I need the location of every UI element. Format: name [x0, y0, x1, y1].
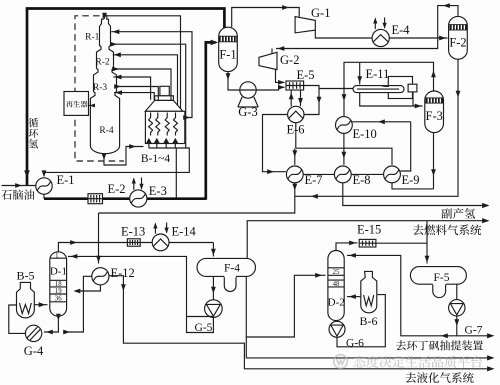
svg-text:19: 19: [55, 288, 62, 295]
svg-text:G-4: G-4: [24, 344, 44, 358]
label 去液化气系统: [406, 372, 474, 383]
column D-1: [50, 252, 67, 316]
svg-text:E-2: E-2: [108, 182, 126, 196]
wire G-6 through B-6 loop: [337, 295, 385, 347]
svg-text:E-10: E-10: [353, 127, 377, 141]
svg-text:F-4: F-4: [224, 262, 240, 274]
wire recycle hydrogen: F-1 top line to feed junction (thick): [27, 9, 224, 186]
heat exchanger E-9: [384, 166, 401, 183]
wire G-4 to B-5: [9, 305, 26, 333]
pump G-4: [25, 325, 41, 341]
svg-text:E-12: E-12: [111, 266, 135, 280]
wire E-14 air down arrow: [166, 223, 168, 233]
svg-text:B-1~4: B-1~4: [141, 153, 170, 165]
wire D-1 bottoms product riser to E-12: [68, 276, 92, 332]
wire effluent riser into F-1 (thick): [206, 42, 216, 199]
wire E-12 product to LPG system: [109, 276, 492, 369]
svg-text:F-1: F-1: [219, 47, 236, 61]
pump G-6: [329, 321, 345, 337]
label recycle hydrogen 循环氢 (vertical): [28, 118, 38, 148]
wire feed down to E-12: [98, 213, 100, 264]
wire G-7 to sulfolane unit: [457, 316, 492, 336]
wire D-2 bottoms to G-6: [335, 320, 337, 323]
wire E-1 bottom to effluent line: [43, 194, 45, 199]
wire R-2 bottom to furnace: [113, 69, 171, 100]
heat exchanger E-13: [127, 239, 140, 246]
wire E-7 bottom west to stabilizer feed: [99, 183, 295, 213]
svg-text:E-5: E-5: [297, 68, 315, 82]
svg-text:36: 36: [55, 296, 62, 303]
pump G-5: [205, 300, 223, 318]
cooler E-6: [288, 106, 304, 122]
vessel F-3 separator: [425, 91, 444, 133]
svg-text:25: 25: [333, 269, 340, 276]
svg-text:B-6: B-6: [360, 314, 378, 328]
wire B-6 return to D-2: [347, 296, 361, 298]
wire E-11 shell outlet west: [319, 88, 353, 90]
F-5 boot: [433, 284, 446, 298]
wire F-3 bottoms down: [433, 133, 435, 189]
wire E-6 to E-5 up: [290, 90, 292, 106]
svg-text:B-5: B-5: [17, 269, 35, 283]
wire R-3 bottom to furnace: [115, 87, 158, 101]
svg-text:E-4: E-4: [392, 23, 411, 37]
wire E-6 to E-7 feed: [263, 115, 288, 172]
svg-text:G-7: G-7: [465, 325, 483, 337]
wire G-5 reflux to D-1: [68, 256, 213, 332]
svg-text:R-3: R-3: [93, 83, 108, 93]
wire E-12 to D-1 feed tray: [75, 285, 100, 291]
wire E-11 to F-3 inlet: [360, 93, 423, 106]
svg-text:1: 1: [55, 253, 58, 260]
wire exchanger top header: [296, 148, 392, 165]
wire F-3 overhead to E-10: [344, 62, 434, 116]
svg-text:E-8: E-8: [353, 173, 371, 187]
vessel F-1 separator: [219, 27, 238, 71]
wire E-7 to E-8: [303, 173, 334, 175]
wire F-2 overhead to G-2 suction: [276, 6, 458, 49]
regenerator 再生器 box: [64, 92, 89, 116]
svg-text:R-2: R-2: [95, 58, 110, 68]
wire E-14 air up arrow: [154, 224, 156, 234]
svg-text:E-9: E-9: [402, 173, 420, 187]
wire E-3 vent up arrow: [133, 179, 135, 190]
column D-2: [328, 251, 344, 321]
vessel F-4 reflux drum: [197, 258, 256, 276]
wire E-9 loop to E-10 right: [352, 121, 410, 123]
heat exchanger E-5: [286, 81, 304, 90]
wire furnace coil to R-3 top: [114, 77, 151, 100]
wire G-7 reflux to D-2: [347, 255, 457, 335]
wire E-11 square down to F-3 feed: [412, 92, 414, 106]
wire E-8 to E-9: [351, 173, 383, 175]
wire into G-2 inlet: [271, 49, 273, 55]
reboiler furnace B-6: [361, 271, 377, 312]
wire R-1 bottom to furnace: [110, 44, 186, 148]
air cooler E-4: [372, 29, 389, 46]
svg-text:E-7: E-7: [305, 173, 323, 187]
heat exchanger E-2: [88, 194, 103, 204]
compressor G-1: [295, 17, 315, 33]
svg-text:G-6: G-6: [346, 338, 364, 350]
wire E-15 to F-5: [376, 242, 427, 244]
wire F-3 overhead tee into E-11: [359, 62, 361, 84]
wire R-4 effluent to heat train: [104, 147, 144, 166]
wire E-10 bottom to E-8: [343, 133, 345, 164]
heat exchanger E-15: [359, 239, 376, 247]
wire G-3 discharge to E-5: [256, 87, 284, 90]
wire E-5 outlet loop to E-6: [304, 86, 319, 115]
svg-text:E-1: E-1: [57, 173, 75, 187]
wire G-1 discharge to E-4: [315, 30, 372, 38]
svg-text:E-11: E-11: [366, 67, 390, 81]
wire fuel gas header: [247, 221, 488, 259]
svg-text:E-14: E-14: [172, 225, 197, 239]
pump G-7: [449, 300, 465, 316]
wire D-1 overhead to E-13 E-14: [58, 243, 213, 252]
wire into E-1 top: [43, 172, 45, 176]
label 去环丁砜抽提装置: [396, 340, 483, 350]
wire furnace manifold to effluent line: [175, 148, 177, 198]
wire G-2 discharge to E-5: [276, 69, 285, 82]
wire furnace to R-1 top feed: [105, 16, 181, 109]
wire riser from E-9 right: [401, 122, 411, 171]
wire E-14 outlet down to F-4: [212, 243, 214, 257]
svg-text:D-2: D-2: [328, 297, 345, 309]
svg-text:48: 48: [333, 281, 340, 288]
svg-text:E-13: E-13: [121, 225, 145, 239]
wire E-8 bottom to byproduct hydrogen: [343, 183, 488, 206]
wire F-4 bottoms to G-5: [212, 276, 214, 299]
furnace B-1~4: [145, 86, 185, 148]
heat exchanger E-3 (trim cooler): [130, 190, 147, 207]
wire furnace coil to R-4 top: [114, 93, 154, 101]
wire E-9 bottom to F-3 bottoms line: [392, 183, 434, 189]
wire F-2 bottoms to E-7 junction: [295, 59, 458, 196]
wire E-4 to F-2: [389, 37, 447, 39]
wire furnace coil to R-2 top: [113, 55, 178, 106]
heat exchanger E-1: [36, 178, 52, 194]
watermark logo: [334, 355, 348, 369]
label 去燃料气系统: [413, 224, 481, 235]
wire F-1 bottoms to G-3: [228, 72, 240, 90]
svg-text:F-2: F-2: [449, 35, 466, 49]
wire furnace bottom manifold to E-1 hot side: [45, 148, 189, 172]
exchanger E-11: [353, 77, 417, 99]
heat exchanger E-7: [286, 166, 303, 183]
vessel F-2 separator: [449, 16, 468, 59]
wire B-5 return to D-1: [34, 304, 47, 306]
wire D-2 overhead to E-15: [336, 243, 358, 251]
label 再生器: [66, 101, 87, 108]
svg-text:G-2: G-2: [280, 53, 299, 67]
vessel F-5 reflux drum: [410, 267, 466, 285]
heat exchanger E-8: [334, 166, 351, 183]
wire reactor effluent through E-2 E-3 (thick): [44, 197, 206, 200]
wire naphtha feed into E-1: [2, 185, 36, 187]
wire E-4 air up arrow: [374, 19, 376, 30]
wire E-3 inlet down arrow: [141, 178, 143, 189]
wire E-6 bottom to exchanger header: [295, 123, 297, 149]
wire F-5 feed and gas riser: [426, 221, 428, 264]
compressor G-2: [259, 52, 277, 69]
svg-text:R-1: R-1: [85, 33, 100, 43]
heat exchanger E-10: [336, 117, 353, 134]
label naphtha 石脑油: [2, 189, 35, 199]
pump G-3: [238, 82, 258, 107]
svg-text:F-3: F-3: [426, 109, 443, 123]
svg-text:E-3: E-3: [149, 184, 167, 198]
watermark text: [353, 356, 481, 368]
reboiler furnace B-5: [17, 282, 35, 317]
reactor stack R-1 R-2 R-3 R-4: [90, 15, 119, 153]
regenerator dashed boundary: [75, 16, 124, 161]
svg-text:D-1: D-1: [50, 266, 67, 278]
wire header into E-7 top: [294, 148, 296, 165]
air cooler E-14: [152, 234, 169, 251]
svg-text:G-1: G-1: [311, 6, 330, 20]
svg-text:E-15: E-15: [357, 223, 381, 237]
wire gasoline product line: [246, 337, 492, 358]
wire furnace outlet to R-1 side: [111, 32, 192, 118]
wire E-4 air down arrow: [384, 18, 386, 28]
wire D-1 bottoms to G-4: [44, 316, 58, 332]
heat exchanger E-12: [92, 268, 109, 285]
wire catalyst line into regenerator: [89, 105, 95, 107]
F-4 boot: [224, 276, 236, 291]
label 副产氢: [441, 208, 475, 219]
svg-text:G-3: G-3: [238, 105, 257, 119]
wire F-1 overhead to G-1: [232, 8, 300, 28]
wire F-4 bottoms to D-2 feed: [246, 275, 325, 337]
svg-text:F-5: F-5: [434, 272, 450, 284]
wire E-5 to E-6 down: [300, 90, 302, 106]
svg-text:R-4: R-4: [99, 126, 114, 136]
wire F-5 bottoms to G-7: [456, 284, 458, 299]
